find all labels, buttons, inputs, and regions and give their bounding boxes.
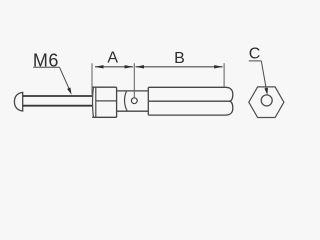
hex center hole xyxy=(261,95,272,106)
collar-body separation line xyxy=(95,87,97,117)
collar curved left face xyxy=(92,87,95,117)
dimension line A xyxy=(95,66,133,68)
handle top lobe xyxy=(148,87,233,101)
arrow A left xyxy=(95,65,104,68)
extension line left (collar face) xyxy=(91,63,93,94)
dimension line B xyxy=(136,66,223,68)
svg-text:B: B xyxy=(174,50,185,67)
arrow B left xyxy=(136,65,145,68)
extension line right (handle cylinder end) xyxy=(223,63,225,87)
C leader arrow xyxy=(264,88,268,95)
C leader shoulder xyxy=(249,60,261,62)
hex body end view xyxy=(249,87,284,118)
collar/body top edge xyxy=(92,86,116,88)
M6 leader line xyxy=(60,67,71,92)
handle bottom lobe xyxy=(148,101,233,115)
M6 leader shoulder xyxy=(33,66,59,68)
neck top edge xyxy=(117,90,149,92)
neck bottom edge xyxy=(117,110,149,112)
body mid line xyxy=(96,100,117,102)
svg-text:C: C xyxy=(249,46,261,63)
cross-hole circle xyxy=(131,98,137,104)
boss arc around hole xyxy=(125,91,128,111)
arrow B right xyxy=(214,65,223,68)
M6 leader arrow xyxy=(67,88,72,95)
arrow A right xyxy=(125,65,134,68)
extension line middle (hole axis) xyxy=(133,63,135,98)
body right edge xyxy=(116,87,118,117)
threaded shaft M6 (bottom line) xyxy=(23,105,93,107)
threaded shaft M6 (top line) xyxy=(23,95,93,97)
svg-text:A: A xyxy=(107,50,118,67)
button head xyxy=(14,92,22,111)
C leader line xyxy=(261,61,267,93)
handle left edge xyxy=(147,87,149,115)
collar/body bottom edge xyxy=(92,116,116,118)
